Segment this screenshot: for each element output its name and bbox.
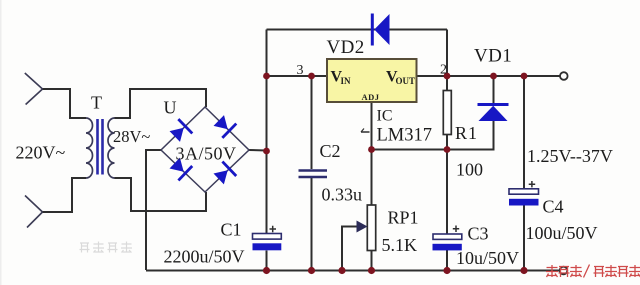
svg-text:LM317: LM317 — [377, 126, 433, 146]
svg-text:IN: IN — [341, 76, 352, 86]
svg-text:10u/50V: 10u/50V — [456, 248, 519, 268]
svg-text:2: 2 — [440, 63, 447, 78]
svg-text:5.1K: 5.1K — [382, 235, 418, 255]
svg-text:28V~: 28V~ — [113, 127, 150, 146]
svg-text:RP1: RP1 — [388, 208, 419, 228]
svg-text:C1: C1 — [221, 220, 242, 240]
svg-text:100u/50V: 100u/50V — [526, 223, 598, 243]
svg-text:2200u/50V: 2200u/50V — [164, 247, 245, 267]
svg-text:C3: C3 — [468, 224, 489, 244]
svg-text:3: 3 — [297, 63, 304, 78]
svg-text:C2: C2 — [320, 141, 341, 161]
svg-text:IC: IC — [377, 108, 393, 125]
svg-text:R1: R1 — [455, 123, 478, 143]
svg-text:U: U — [164, 98, 177, 118]
svg-text:0.33u: 0.33u — [322, 185, 363, 205]
svg-text:OUT: OUT — [396, 76, 416, 86]
svg-text:220V~: 220V~ — [16, 143, 66, 163]
svg-text:T: T — [91, 93, 102, 113]
svg-text:3A/50V: 3A/50V — [176, 144, 237, 164]
svg-text:VD1: VD1 — [474, 46, 512, 67]
svg-text:100: 100 — [456, 160, 483, 180]
svg-text:1.25V--37V: 1.25V--37V — [527, 146, 613, 166]
svg-text:ADJ: ADJ — [362, 92, 380, 102]
svg-text:C4: C4 — [543, 197, 564, 217]
svg-text:VD2: VD2 — [327, 37, 365, 58]
